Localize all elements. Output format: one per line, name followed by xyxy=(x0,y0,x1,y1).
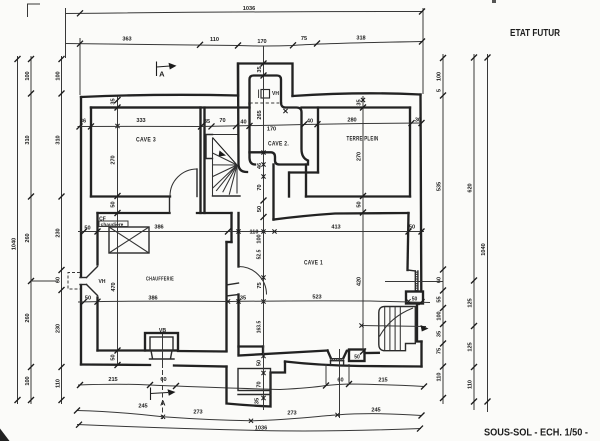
SE corner outer xyxy=(420,342,422,367)
L2 x31 : 100/310/260/260/100 xyxy=(30,56,32,404)
svg-text:VB: VB xyxy=(159,328,166,334)
vent throat lines xyxy=(80,277,87,279)
svg-text:273: 273 xyxy=(193,410,202,416)
svg-text:CHAUFFERIE: CHAUFFERIE xyxy=(146,277,174,283)
svg-text:CAVE 3: CAVE 3 xyxy=(136,137,156,144)
svg-text:50: 50 xyxy=(84,226,90,232)
svg-text:50: 50 xyxy=(409,225,415,231)
west wall outer xyxy=(80,97,82,277)
svg-text:163.5: 163.5 xyxy=(257,321,263,334)
svg-text:170: 170 xyxy=(257,39,266,45)
svg-text:110: 110 xyxy=(468,380,474,389)
svg-text:60: 60 xyxy=(56,277,62,283)
svg-text:230: 230 xyxy=(56,228,62,237)
extension line right x423 xyxy=(422,8,424,94)
east wall outer upper xyxy=(419,95,422,292)
cave2 ext vertical xyxy=(305,165,307,197)
west inner face cave3 xyxy=(90,108,92,197)
svg-text:470: 470 xyxy=(111,282,117,291)
svg-text:35: 35 xyxy=(111,98,117,104)
svg-text:55: 55 xyxy=(437,296,443,302)
CF / chaudiere box xyxy=(99,221,128,227)
svg-text:40: 40 xyxy=(307,119,313,125)
svg-text:36: 36 xyxy=(80,119,86,125)
svg-text:110: 110 xyxy=(437,372,443,381)
walk line with arrow xyxy=(362,326,427,327)
svg-text:110: 110 xyxy=(56,379,62,388)
svg-text:110: 110 xyxy=(210,37,219,43)
svg-text:35: 35 xyxy=(255,398,261,404)
svg-text:318: 318 xyxy=(356,36,365,42)
svg-text:chaudière: chaudière xyxy=(101,222,124,228)
TP top xyxy=(302,106,411,108)
TP right xyxy=(409,108,411,197)
svg-text:50: 50 xyxy=(257,360,263,366)
stair top tread xyxy=(213,134,239,136)
VB centerline xyxy=(162,334,164,368)
svg-text:333: 333 xyxy=(136,118,145,124)
svg-text:50: 50 xyxy=(111,354,117,360)
TP south band lower xyxy=(274,213,409,220)
stair walk arrow xyxy=(219,151,227,157)
cave3 top wall xyxy=(91,106,201,108)
svg-text:A: A xyxy=(160,399,166,408)
svg-text:245: 245 xyxy=(371,408,380,414)
chaufferie-cave1 door arc xyxy=(239,267,267,295)
svg-text:100: 100 xyxy=(56,71,62,80)
duct dashed bottom xyxy=(250,102,280,104)
bottom bump outer xyxy=(227,362,286,407)
cave3 door leaf xyxy=(196,169,198,197)
svg-text:CF: CF xyxy=(99,217,106,223)
SE stair treads xyxy=(384,307,386,350)
svg-text:110: 110 xyxy=(249,230,258,236)
stair bottom edge xyxy=(213,195,241,197)
door jamb splays xyxy=(227,283,239,285)
window centerline xyxy=(339,349,341,418)
50 block on south wall xyxy=(349,350,365,362)
chimney bump top (VH duct) xyxy=(238,64,293,97)
svg-text:100: 100 xyxy=(437,311,443,320)
svg-text:260: 260 xyxy=(25,313,31,322)
stair stringer diagonal xyxy=(213,138,238,166)
svg-text:1040: 1040 xyxy=(12,238,18,250)
L3 x61.5 : 100/310/230/60/230/110 xyxy=(61,56,63,404)
east inner face cave1 xyxy=(408,213,409,270)
cave2 floor bottom xyxy=(250,152,307,164)
svg-text:75: 75 xyxy=(437,348,443,354)
R3 x487.5 : 1040 xyxy=(487,54,489,412)
svg-text:CAVE 2.: CAVE 2. xyxy=(268,141,289,148)
svg-text:535: 535 xyxy=(437,182,443,191)
svg-text:310: 310 xyxy=(56,135,62,144)
extension line x80 xyxy=(79,38,81,95)
svg-text:620: 620 xyxy=(468,183,474,192)
B5 y~428 : 1036 xyxy=(77,425,421,431)
svg-text:270: 270 xyxy=(111,155,117,164)
svg-text:100: 100 xyxy=(257,234,263,243)
bump vent rect xyxy=(238,369,271,391)
svg-text:46: 46 xyxy=(257,163,263,169)
cave2 ext east wall xyxy=(272,165,274,220)
svg-text:386: 386 xyxy=(154,225,163,231)
svg-text:SOUS-SOL - ECH. 1/50 -: SOUS-SOL - ECH. 1/50 - xyxy=(484,428,588,439)
SE door arc xyxy=(380,308,414,337)
svg-text:245: 245 xyxy=(138,404,147,410)
corner fold mark top-left xyxy=(28,4,41,17)
svg-text:35: 35 xyxy=(240,296,246,302)
cave3 door arc xyxy=(170,169,197,196)
south wall outer left xyxy=(81,363,150,366)
aux line y245 xyxy=(385,281,443,283)
svg-text:125: 125 xyxy=(468,298,474,307)
svg-text:35: 35 xyxy=(437,331,443,337)
stair east wall band curving end xyxy=(238,64,247,173)
svg-text:50: 50 xyxy=(354,355,360,361)
svg-text:60: 60 xyxy=(437,277,443,283)
extension line left x65 xyxy=(65,8,67,58)
svg-text:60: 60 xyxy=(160,377,166,383)
svg-text:CAVE 1: CAVE 1 xyxy=(304,260,323,267)
L1 x17.5 : 1040 xyxy=(17,56,19,404)
cave3 floor south xyxy=(91,195,170,197)
svg-text:70: 70 xyxy=(257,184,263,190)
svg-text:35: 35 xyxy=(204,119,210,125)
svg-text:50: 50 xyxy=(85,296,91,302)
svg-text:386: 386 xyxy=(148,296,157,302)
TP bottom xyxy=(306,195,410,197)
svg-text:ETAT FUTUR: ETAT FUTUR xyxy=(510,27,560,39)
svg-text:260: 260 xyxy=(25,233,31,242)
svg-text:363: 363 xyxy=(122,37,131,43)
svg-text:30: 30 xyxy=(415,118,421,124)
VH box xyxy=(261,90,270,99)
svg-text:70: 70 xyxy=(219,118,225,124)
B3 y~385 : 215/60 .. 60/215 xyxy=(78,384,424,390)
stair left edge xyxy=(212,138,214,197)
svg-text:310: 310 xyxy=(25,135,31,144)
svg-text:1036: 1036 xyxy=(243,6,255,12)
north wall outer right xyxy=(293,93,421,96)
svg-text:125: 125 xyxy=(468,342,474,351)
door jamb cave3 xyxy=(169,197,171,214)
svg-text:100: 100 xyxy=(437,72,443,81)
vent centerline west xyxy=(31,280,58,282)
svg-text:100: 100 xyxy=(25,71,31,80)
svg-text:50: 50 xyxy=(257,206,263,212)
svg-text:265: 265 xyxy=(257,110,263,119)
svg-text:A: A xyxy=(159,70,165,79)
svg-text:35: 35 xyxy=(257,66,263,72)
window edge extensions xyxy=(325,364,327,385)
svg-text:75: 75 xyxy=(301,36,307,42)
scan speck top edge xyxy=(492,0,496,3)
svg-text:50: 50 xyxy=(111,201,117,207)
svg-text:5: 5 xyxy=(437,89,443,92)
south inner face left xyxy=(98,349,146,351)
TP ext top xyxy=(290,171,318,173)
svg-text:50: 50 xyxy=(357,201,363,207)
bottom A arrow xyxy=(151,370,176,419)
svg-text:170: 170 xyxy=(267,127,276,133)
light well dashed xyxy=(68,273,80,290)
stair winders xyxy=(213,153,238,165)
south inner face right xyxy=(239,351,328,356)
svg-text:215: 215 xyxy=(378,378,387,384)
svg-text:280: 280 xyxy=(347,118,356,124)
dim line 1036 xyxy=(66,12,424,14)
svg-text:273: 273 xyxy=(287,411,296,417)
svg-text:70: 70 xyxy=(257,381,263,387)
scan edge wedge bottom-left xyxy=(0,429,10,441)
svg-text:523: 523 xyxy=(312,295,321,301)
svg-text:VH: VH xyxy=(272,91,279,97)
svg-text:100: 100 xyxy=(25,376,31,385)
SE stair rounded enclosure xyxy=(379,307,416,351)
wall band segment under stair xyxy=(197,212,232,214)
svg-text:270: 270 xyxy=(357,152,363,161)
svg-text:52.5: 52.5 xyxy=(257,249,263,259)
svg-text:75: 75 xyxy=(257,282,263,288)
B4 y~411 : 245/273/245 xyxy=(77,411,422,421)
svg-text:215: 215 xyxy=(108,377,117,383)
svg-text:60: 60 xyxy=(337,378,343,384)
svg-text:413: 413 xyxy=(331,225,340,231)
vent splays xyxy=(87,267,98,278)
north inner face xyxy=(91,106,250,108)
svg-text:1036: 1036 xyxy=(255,426,267,432)
TP left xyxy=(317,108,319,173)
cave3 south band lower line xyxy=(98,212,170,214)
short wall stubs xyxy=(239,345,264,347)
south wall outer right xyxy=(285,362,422,367)
svg-text:1040: 1040 xyxy=(481,243,487,255)
svg-text:VH: VH xyxy=(99,279,106,285)
svg-text:40: 40 xyxy=(240,120,246,126)
TP ext left xyxy=(288,173,290,197)
R2 x474 : 620/125/125/110 xyxy=(473,54,475,410)
top A arrow xyxy=(157,62,177,79)
west inner face chaufferie xyxy=(96,213,98,265)
north wall outer left xyxy=(81,95,238,97)
svg-text:420: 420 xyxy=(357,277,363,286)
svg-text:35: 35 xyxy=(357,99,363,105)
junction tick xyxy=(283,109,287,113)
stair notch xyxy=(206,135,213,159)
svg-text:230: 230 xyxy=(56,324,62,333)
